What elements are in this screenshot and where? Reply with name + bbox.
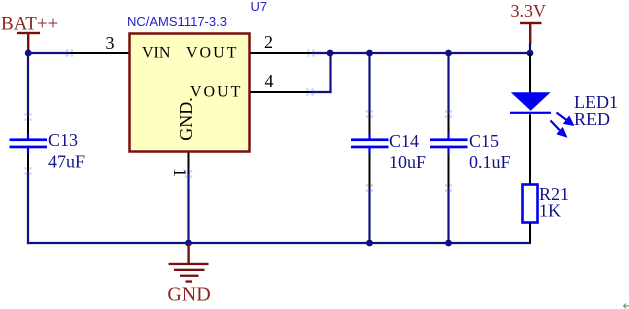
svg-text:C14: C14 xyxy=(389,131,419,151)
junction C15 bottom xyxy=(445,240,452,247)
wire: left vertical down to C13 xyxy=(27,53,29,116)
svg-text:VOUT: VOUT xyxy=(190,84,242,101)
wire: BAT junction to VIN pin xyxy=(28,52,70,54)
svg-text:10uF: 10uF xyxy=(389,152,426,172)
pin 1 of U7 (GND) xyxy=(188,153,190,175)
svg-text:RED: RED xyxy=(574,109,610,129)
wire: C14 bottom xyxy=(368,188,370,243)
svg-text:GND: GND xyxy=(167,284,210,306)
pin 3 of U7 xyxy=(70,52,129,54)
resistor R21 xyxy=(523,185,538,244)
junction GND xyxy=(185,240,192,247)
wire end marker xyxy=(306,88,313,95)
ground symbol xyxy=(169,243,209,283)
wire end marker xyxy=(366,184,373,191)
wire: C15 bottom xyxy=(447,188,449,243)
wire: C14 top xyxy=(368,53,370,114)
wire: C13 down to bottom rail xyxy=(27,171,29,244)
svg-text:0.1uF: 0.1uF xyxy=(469,152,511,172)
wire end marker xyxy=(366,110,373,117)
svg-text:GND.: GND. xyxy=(176,97,196,141)
junction C15 top xyxy=(445,50,452,57)
svg-text:47uF: 47uF xyxy=(48,152,85,172)
svg-text:↵: ↵ xyxy=(623,298,629,309)
wire end marker xyxy=(445,110,452,117)
svg-text:2: 2 xyxy=(264,32,273,52)
wire: regulator GND pin down to rail xyxy=(187,174,189,243)
wire: bottom rail xyxy=(27,242,531,244)
wire end marker xyxy=(185,170,192,177)
capacitor C13 xyxy=(10,116,48,171)
wire end marker xyxy=(307,49,314,56)
power port 3.3V xyxy=(511,1,547,44)
junction at BAT rail xyxy=(25,50,32,57)
wire: C15 top xyxy=(447,53,449,114)
capacitor C15 xyxy=(430,114,468,188)
pin 4 of U7 xyxy=(251,91,311,93)
svg-text:3: 3 xyxy=(106,33,115,53)
svg-text:VIN: VIN xyxy=(142,45,171,62)
svg-text:4: 4 xyxy=(265,71,274,91)
wire end marker xyxy=(445,184,452,191)
LED LED1 xyxy=(510,53,573,184)
wire end marker xyxy=(66,49,73,56)
wire: pin 4 stub xyxy=(310,91,332,93)
svg-text:NC/AMS1117-3.3: NC/AMS1117-3.3 xyxy=(127,14,227,29)
capacitor C14 xyxy=(351,114,389,188)
svg-text:3.3V: 3.3V xyxy=(511,1,547,21)
junction 3.3V / LED xyxy=(527,50,534,57)
wire: pin 4 vertical up to rail xyxy=(329,53,331,93)
junction C14 top xyxy=(366,50,373,57)
wire: pin 2 to top rail xyxy=(311,52,530,54)
wire: 3.3V stem to rail xyxy=(529,43,531,53)
svg-text:BAT++: BAT++ xyxy=(1,14,58,35)
junction C14 bottom xyxy=(366,240,373,247)
LED arrow 1 xyxy=(551,113,573,137)
junction pin4/rail xyxy=(327,50,334,57)
LED arrow 2 xyxy=(551,121,560,131)
wire end marker xyxy=(24,113,31,120)
svg-text:1K: 1K xyxy=(539,201,561,221)
svg-text:C15: C15 xyxy=(469,131,499,151)
power port BAT++ xyxy=(1,14,58,53)
svg-text:U7: U7 xyxy=(251,0,268,14)
svg-text:C13: C13 xyxy=(48,130,78,150)
pin 2 of U7 xyxy=(251,52,312,54)
svg-text:VOUT: VOUT xyxy=(186,45,238,62)
regulator U7 body xyxy=(130,34,250,152)
wire end marker xyxy=(24,167,31,174)
